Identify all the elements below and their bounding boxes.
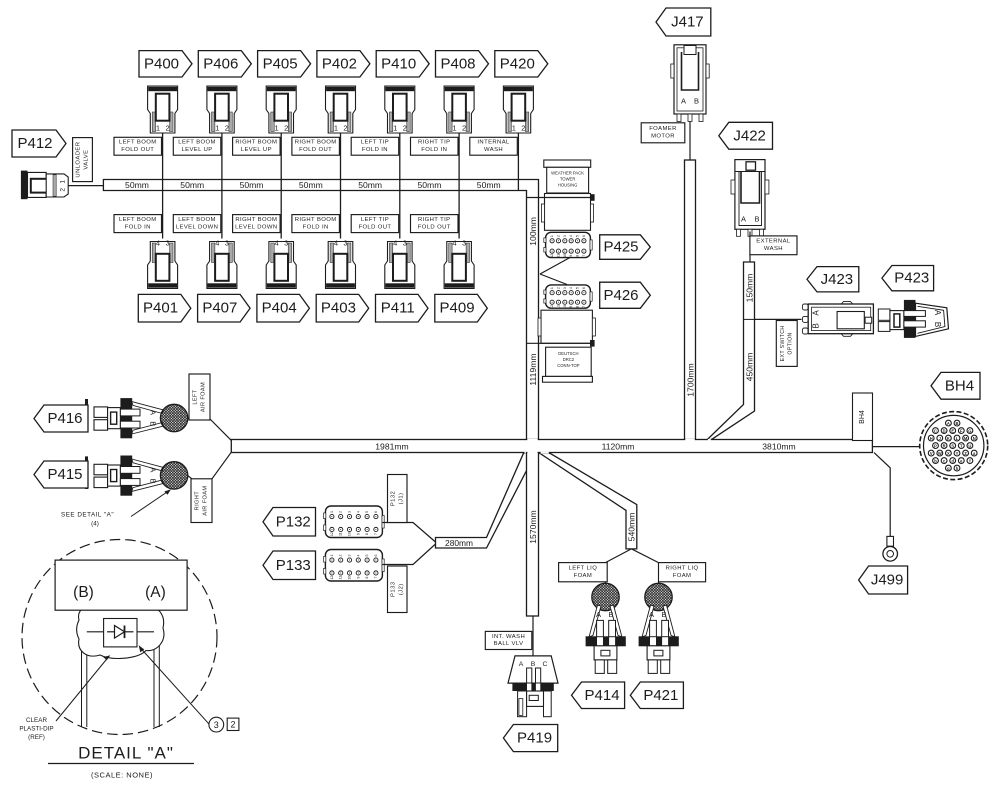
wire drop P410/P411 (399, 133, 401, 239)
svg-text:2: 2 (462, 124, 466, 133)
svg-text:5: 5 (365, 554, 369, 556)
wire P412 to bus (68, 185, 103, 187)
svg-text:LEFT TIP: LEFT TIP (361, 217, 389, 223)
connector P408 (2-pin) (444, 86, 474, 133)
wire P132 to 280mm bus (382, 523, 435, 543)
tag P425 (600, 235, 651, 259)
svg-text:11: 11 (339, 576, 343, 580)
svg-text:BH4: BH4 (859, 410, 866, 424)
label RIGHT AIR FOAM (191, 479, 212, 523)
svg-text:HOUSING: HOUSING (558, 183, 578, 188)
label P132 (J1) (388, 475, 408, 523)
svg-text:10: 10 (563, 254, 567, 258)
svg-text:LEFT TIP: LEFT TIP (361, 140, 389, 146)
svg-text:(J2): (J2) (398, 583, 404, 595)
svg-text:1: 1 (156, 124, 160, 133)
connector P416 (air foam nozzle assembly) (85, 399, 188, 438)
svg-text:G: G (968, 428, 971, 433)
svg-text:10: 10 (348, 532, 352, 536)
wire external wash to 150mm bus (749, 255, 751, 262)
svg-text:150mm: 150mm (745, 274, 755, 303)
svg-text:1: 1 (512, 124, 516, 133)
svg-text:RIGHT BOOM: RIGHT BOOM (235, 217, 277, 223)
wire drop P420 (517, 133, 519, 191)
svg-text:1: 1 (334, 124, 338, 133)
wire J422 to external wash label (749, 232, 751, 237)
tag P400 (139, 51, 192, 77)
tag P426 (600, 282, 651, 308)
label EXTERNAL WASH (750, 236, 797, 255)
connector P420 (2-pin) (503, 86, 533, 133)
label LEFT TIP FOLD IN (351, 137, 399, 155)
tag P132 (263, 508, 316, 537)
svg-text:A: A (596, 610, 601, 619)
svg-text:P406: P406 (203, 55, 238, 72)
connector P403 (2-pin) (326, 239, 356, 289)
svg-text:4: 4 (334, 239, 338, 248)
svg-text:H: H (930, 436, 933, 441)
svg-text:CLEAR: CLEAR (26, 717, 47, 724)
svg-text:P409: P409 (440, 300, 475, 317)
svg-text:RIGHT BOOM: RIGHT BOOM (295, 217, 337, 223)
label RIGHT TIP FOLD OUT (411, 215, 459, 233)
wire left liq foam (605, 582, 607, 584)
svg-text:LEVEL UP: LEVEL UP (241, 147, 272, 153)
label LEFT BOOM FOLD IN (114, 215, 162, 233)
label RIGHT BOOM LEVEL UP (233, 137, 281, 155)
bus 1570mm (527, 453, 539, 616)
svg-text:5: 5 (576, 235, 580, 237)
svg-text:Y: Y (956, 451, 959, 456)
svg-text:2: 2 (403, 124, 407, 133)
connector P425 (12-pin) (544, 232, 592, 257)
svg-text:2: 2 (284, 124, 288, 133)
svg-text:J423: J423 (821, 271, 854, 288)
svg-text:7: 7 (582, 306, 586, 308)
tag P407 (198, 294, 251, 322)
svg-text:WASH: WASH (764, 246, 783, 252)
svg-text:DETAIL "A": DETAIL "A" (78, 744, 174, 763)
svg-text:RIGHT BOOM: RIGHT BOOM (295, 140, 337, 146)
svg-text:INTERNAL: INTERNAL (477, 140, 510, 146)
bus 280mm feeder (436, 453, 536, 548)
svg-text:B: B (694, 97, 699, 106)
svg-text:M: M (964, 436, 968, 441)
svg-text:SEE DETAIL "A": SEE DETAIL "A" (61, 512, 114, 519)
connector P423 (2-pin plug, horizontal) (878, 300, 948, 338)
svg-text:P425: P425 (603, 239, 638, 256)
svg-text:1: 1 (60, 180, 67, 184)
svg-text:P412: P412 (17, 135, 52, 152)
note CLEAR PLASTI-DIP (19, 655, 110, 741)
svg-text:DEUTSCH: DEUTSCH (558, 351, 578, 356)
svg-text:50mm: 50mm (418, 180, 442, 190)
connector housing block (lower, deutsch) (538, 310, 595, 382)
svg-text:2: 2 (225, 124, 229, 133)
svg-text:S: S (951, 443, 954, 448)
svg-text:4: 4 (569, 235, 573, 237)
svg-text:450mm: 450mm (745, 353, 755, 382)
svg-text:(REF): (REF) (28, 734, 45, 741)
svg-text:50mm: 50mm (240, 180, 264, 190)
svg-text:1981mm: 1981mm (375, 441, 408, 451)
svg-text:3: 3 (462, 239, 466, 248)
svg-text:1: 1 (452, 124, 456, 133)
svg-text:3: 3 (563, 287, 567, 289)
svg-text:A: A (649, 610, 654, 619)
svg-text:6: 6 (582, 235, 586, 237)
svg-text:9: 9 (569, 306, 573, 308)
svg-text:LEFT BOOM: LEFT BOOM (119, 217, 157, 223)
tag P414 (572, 682, 625, 709)
wire drop P402/P403 (340, 133, 342, 239)
wire drop P408/P409 (458, 133, 460, 239)
svg-text:12: 12 (550, 305, 554, 309)
svg-text:50mm: 50mm (299, 180, 323, 190)
connector P400 (2-pin) (148, 86, 178, 133)
svg-text:(A): (A) (145, 584, 166, 601)
svg-text:WEATHER PACK: WEATHER PACK (551, 171, 584, 176)
svg-text:540mm: 540mm (626, 513, 636, 542)
junction patch (708, 439, 711, 441)
svg-text:J499: J499 (871, 572, 904, 589)
label UNLOADER VALVE (73, 138, 93, 182)
svg-text:3: 3 (348, 554, 352, 556)
svg-text:P414: P414 (585, 687, 620, 704)
wire 540mm to right liq foam (631, 549, 658, 563)
svg-text:P416: P416 (47, 410, 82, 427)
svg-text:9: 9 (569, 255, 573, 257)
svg-text:50mm: 50mm (358, 180, 382, 190)
svg-text:P401: P401 (143, 300, 178, 317)
svg-text:8: 8 (576, 306, 580, 308)
svg-text:B: B (149, 479, 158, 484)
label P133 (J2) (388, 566, 408, 613)
svg-text:X: X (947, 451, 950, 456)
tag P404 (257, 294, 310, 322)
svg-text:B: B (956, 421, 959, 426)
junction patch (685, 439, 694, 441)
svg-text:P420: P420 (500, 55, 535, 72)
tag P410 (376, 51, 429, 77)
svg-text:PLASTI-DIP: PLASTI-DIP (19, 726, 53, 733)
tag P403 (316, 294, 369, 322)
label EXT SWITCH OPTION (776, 321, 797, 367)
connector J423 (2-pin receptacle, horizontal) (802, 302, 873, 337)
bus 50mm solenoid harness (L-shape with vertical 100mm/1119mm run) (103, 180, 538, 441)
svg-text:P415: P415 (47, 466, 82, 483)
connector P415 (air foam nozzle assembly) (85, 456, 188, 495)
svg-text:4: 4 (156, 239, 160, 248)
bus 150mm/450mm with diagonal to main bus (707, 262, 754, 440)
wire to J423 (755, 318, 802, 320)
label LEFT BOOM FOLD OUT (114, 137, 162, 155)
detail A dashed circle (22, 540, 217, 735)
svg-text:1: 1 (215, 124, 219, 133)
svg-text:2: 2 (166, 124, 170, 133)
label RIGHT LIQ FOAM (659, 563, 706, 582)
svg-text:P405: P405 (263, 55, 298, 72)
bus 540mm feeder (540, 453, 637, 549)
wire to upper housing (526, 197, 591, 199)
tag P412 (12, 130, 66, 157)
wire P415 to label (187, 475, 192, 478)
svg-text:11: 11 (556, 254, 560, 258)
detail A wire A (154, 610, 159, 727)
label FOAMER MOTOR (641, 123, 685, 143)
svg-text:1119mm: 1119mm (528, 353, 538, 385)
junction patch (527, 439, 537, 453)
svg-text:A: A (741, 215, 746, 224)
svg-text:J: J (939, 436, 941, 441)
label LEFT BOOM LEVEL UP (173, 137, 221, 155)
tag J499 (859, 566, 908, 594)
svg-text:RIGHT BOOM: RIGHT BOOM (235, 140, 277, 146)
wire P416 to label (187, 417, 191, 419)
svg-text:(J1): (J1) (398, 493, 404, 505)
svg-text:P403: P403 (321, 300, 356, 317)
svg-text:3: 3 (403, 239, 407, 248)
svg-text:4: 4 (569, 287, 573, 289)
svg-text:A: A (149, 467, 158, 472)
svg-text:P133: P133 (276, 557, 311, 574)
ring terminal J499 (883, 536, 898, 561)
wire right air foam to bus (212, 452, 231, 479)
svg-text:3: 3 (225, 239, 229, 248)
svg-text:7: 7 (374, 533, 378, 535)
svg-text:2: 2 (556, 235, 560, 237)
svg-text:10: 10 (348, 576, 352, 580)
svg-text:8: 8 (576, 255, 580, 257)
tag BH4 (931, 372, 980, 399)
wire left air foam to bus (210, 419, 231, 440)
label LEFT BOOM LEVEL DOWN (173, 215, 221, 233)
detail A wire B (82, 610, 87, 727)
svg-text:RIGHT LIQ: RIGHT LIQ (666, 566, 699, 572)
tag P420 (495, 51, 548, 77)
svg-text:FOAM: FOAM (574, 573, 593, 579)
svg-text:LEFT BOOM: LEFT BOOM (119, 140, 157, 146)
svg-text:N: N (973, 436, 976, 441)
svg-text:1570mm: 1570mm (528, 510, 538, 543)
svg-text:11: 11 (556, 305, 560, 309)
plasti-dip blob (77, 602, 164, 659)
svg-text:3: 3 (348, 511, 352, 513)
tag P406 (198, 51, 251, 77)
svg-text:DRC2: DRC2 (563, 357, 575, 362)
connector P411 (2-pin) (385, 239, 415, 289)
connector P401 (2-pin) (148, 239, 178, 289)
svg-text:P411: P411 (381, 300, 415, 317)
connector P133 (12-pin) (324, 550, 385, 582)
svg-text:P132: P132 (276, 513, 311, 530)
svg-text:J422: J422 (733, 127, 766, 144)
tag P415 (34, 461, 88, 488)
svg-text:2: 2 (339, 511, 343, 513)
svg-text:P419: P419 (517, 730, 552, 747)
svg-text:P404: P404 (262, 300, 297, 317)
connector P414 (liq foam nozzle assembly) (586, 583, 625, 673)
svg-text:B: B (933, 322, 942, 327)
svg-text:FOLD IN: FOLD IN (421, 147, 447, 153)
connector P426 (12-pin) (544, 285, 592, 309)
note SEE DETAIL A (61, 489, 171, 527)
svg-text:P133: P133 (390, 581, 396, 597)
tag P423 (882, 266, 934, 291)
svg-text:3: 3 (214, 720, 219, 730)
svg-text:P400: P400 (144, 55, 179, 72)
svg-text:9: 9 (356, 577, 360, 579)
wire drop P400/P401 (162, 133, 164, 239)
label BH4 breakout (853, 393, 873, 441)
tag P416 (34, 405, 88, 432)
svg-text:100mm: 100mm (528, 217, 538, 246)
svg-text:2: 2 (343, 124, 347, 133)
svg-text:RIGHT: RIGHT (195, 491, 201, 511)
bus tick 150/450 (744, 318, 755, 320)
svg-text:LEVEL DOWN: LEVEL DOWN (176, 224, 218, 230)
svg-text:4: 4 (356, 511, 360, 513)
connector P132 (12-pin) (324, 506, 385, 538)
svg-text:6: 6 (582, 287, 586, 289)
svg-text:FOLD OUT: FOLD OUT (299, 147, 332, 153)
svg-text:INT. WASH: INT. WASH (492, 634, 525, 640)
label RIGHT BOOM FOLD OUT (292, 137, 340, 155)
svg-text:J417: J417 (671, 14, 704, 31)
svg-text:4: 4 (215, 239, 219, 248)
svg-text:9: 9 (356, 533, 360, 535)
wire to J499 ring terminal (874, 453, 890, 537)
svg-text:EXT SWITCH: EXT SWITCH (780, 325, 786, 361)
svg-text:P423: P423 (894, 270, 929, 287)
svg-text:1: 1 (330, 554, 334, 556)
svg-text:EXTERNAL: EXTERNAL (756, 239, 791, 245)
svg-text:1: 1 (550, 287, 554, 289)
terminal (lower housing) (590, 340, 595, 347)
tag J417 (656, 8, 711, 36)
svg-text:LEFT BOOM: LEFT BOOM (178, 140, 216, 146)
svg-text:B: B (661, 610, 666, 619)
svg-text:D: D (943, 428, 946, 433)
svg-text:A: A (681, 97, 686, 106)
svg-text:P408: P408 (440, 55, 475, 72)
svg-text:FOLD IN: FOLD IN (362, 147, 388, 153)
svg-text:P402: P402 (322, 55, 357, 72)
svg-text:2: 2 (521, 124, 525, 133)
svg-text:6: 6 (374, 554, 378, 556)
svg-text:B: B (531, 661, 536, 668)
svg-text:LEVEL DOWN: LEVEL DOWN (235, 224, 277, 230)
label LEFT LIQ FOAM (559, 563, 608, 582)
svg-text:P: P (934, 443, 937, 448)
label INT WASH BALL VLV (485, 631, 532, 649)
svg-text:8: 8 (365, 533, 369, 535)
tag P402 (317, 51, 370, 77)
connector P410 (2-pin) (385, 86, 415, 133)
svg-text:A: A (519, 661, 524, 668)
label RIGHT BOOM FOLD IN (292, 215, 340, 233)
svg-text:WASH: WASH (484, 147, 503, 153)
svg-text:V: V (930, 451, 933, 456)
svg-text:B: B (812, 323, 821, 328)
svg-text:RIGHT TIP: RIGHT TIP (418, 140, 451, 146)
detail A connector body (55, 560, 187, 610)
label INTERNAL WASH (470, 137, 518, 155)
tag P419 (503, 725, 557, 752)
svg-text:5: 5 (365, 511, 369, 513)
svg-text:2: 2 (556, 287, 560, 289)
svg-text:BH4: BH4 (945, 377, 974, 394)
svg-text:10: 10 (563, 305, 567, 309)
connector P421 (liq foam nozzle assembly) (639, 583, 678, 673)
svg-text:P410: P410 (381, 55, 416, 72)
svg-text:LEVEL UP: LEVEL UP (181, 147, 212, 153)
svg-text:8: 8 (365, 577, 369, 579)
svg-text:2: 2 (60, 188, 67, 192)
svg-text:12: 12 (550, 254, 554, 258)
tag P405 (258, 51, 311, 77)
svg-text:R: R (943, 443, 946, 448)
svg-text:3: 3 (563, 235, 567, 237)
connector housing block (upper, weather-pack) (541, 160, 593, 230)
svg-text:1: 1 (550, 235, 554, 237)
wire bus to P426 (540, 274, 567, 285)
svg-text:FOLD OUT: FOLD OUT (358, 224, 391, 230)
svg-text:4: 4 (393, 239, 397, 248)
label LEFT AIR FOAM (189, 374, 210, 420)
svg-text:E: E (951, 428, 954, 433)
svg-text:AIR FOAM: AIR FOAM (200, 382, 206, 412)
bus 1700mm (685, 160, 696, 440)
svg-text:1700mm: 1700mm (685, 363, 695, 396)
svg-text:1: 1 (275, 124, 279, 133)
svg-text:MOTOR: MOTOR (651, 134, 675, 140)
label RIGHT BOOM LEVEL DOWN (233, 215, 281, 233)
svg-text:TOWER: TOWER (560, 177, 576, 182)
tag J423 (807, 267, 859, 292)
connector J417 (2-pin, A B) (671, 45, 709, 122)
tag P411 (376, 294, 429, 322)
connector P407 (2-pin) (207, 239, 237, 289)
svg-text:C: C (543, 661, 548, 668)
wire to lower housing (526, 342, 591, 344)
svg-text:B: B (149, 421, 158, 426)
connector P419 (3-pin ball valve) (508, 656, 558, 717)
svg-text:AIR FOAM: AIR FOAM (202, 486, 208, 516)
wire bus to P425 (540, 258, 570, 275)
wire drop P406/P407 (221, 133, 223, 239)
bus main trunk (1981/1120/3810mm) (231, 440, 872, 453)
svg-text:P407: P407 (202, 300, 237, 317)
diode assembly (87, 619, 154, 647)
svg-text:50mm: 50mm (477, 180, 501, 190)
connector BH4 (round multi-pin) (920, 412, 988, 480)
svg-text:LEFT: LEFT (193, 389, 199, 404)
svg-text:4: 4 (452, 239, 456, 248)
label LEFT TIP FOLD OUT (351, 215, 399, 233)
wire 1570mm bus to P419 (532, 616, 534, 656)
svg-text:2: 2 (230, 720, 235, 730)
svg-text:C: C (934, 428, 937, 433)
svg-text:4: 4 (275, 239, 279, 248)
terminal (upper housing) (590, 194, 595, 201)
wire drop P405/P404 (280, 133, 282, 239)
tag P421 (630, 682, 683, 709)
svg-text:B: B (754, 215, 759, 224)
svg-text:FOAM: FOAM (673, 573, 692, 579)
svg-text:FOLD OUT: FOLD OUT (121, 147, 154, 153)
svg-text:3: 3 (166, 239, 170, 248)
